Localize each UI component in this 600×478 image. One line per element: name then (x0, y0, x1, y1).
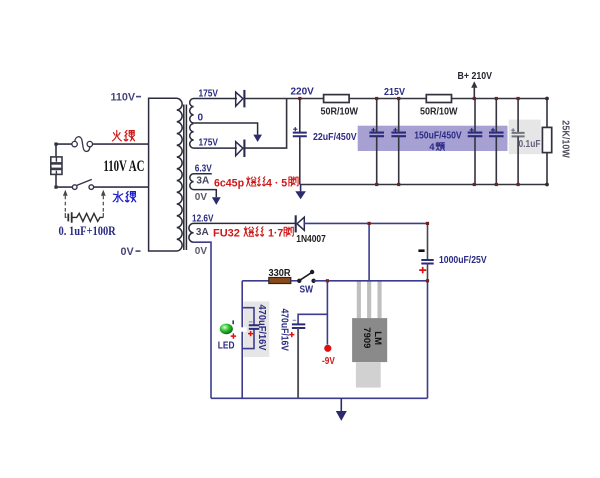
capacitor C7 470uF/16V (292, 320, 305, 328)
svg-text:25K/10W: 25K/10W (560, 120, 571, 158)
svg-text:110V AC: 110V AC (103, 157, 144, 174)
wire HV ground bus (300, 184, 547, 186)
regulator U1 LM7909 leads (357, 281, 382, 318)
capacitor C4 150uF/450V (468, 99, 483, 185)
snubber capacitor 0.1uF plates (68, 212, 71, 222)
wire switch to reservoir cap bottom (314, 280, 428, 282)
arrow 6.3V 0V (212, 197, 221, 205)
svg-text:0: 0 (198, 113, 204, 124)
node dot neutral corner (54, 186, 57, 189)
svg-text:220V: 220V (291, 86, 315, 97)
node dot rail to U1 (368, 222, 371, 225)
svg-text:150uF/450V: 150uF/450V (414, 130, 462, 141)
minus mark 1000uF (418, 249, 424, 252)
highlight gray box 0.1uF (509, 120, 541, 155)
wire hot line (fire) from corner to fuse (56, 143, 72, 145)
transformer core (184, 105, 187, 251)
wire 330R to switch (291, 280, 299, 282)
label water-line (neutral) blue CJK (113, 191, 136, 201)
wire switch to transformer primary 0V (94, 186, 149, 188)
switch S1 on neutral line (72, 179, 93, 189)
capacitor C5 150uF/450V (489, 99, 504, 185)
svg-text:3A: 3A (196, 227, 209, 238)
svg-text:470uF/16V: 470uF/16V (256, 305, 267, 351)
resistor R2 50R/10W (426, 95, 451, 103)
label fire-line (hot) red CJK (112, 130, 134, 141)
highlight gray box LED cap (244, 302, 270, 358)
regulator U1 LM7909 body (352, 318, 387, 362)
capacitor C3 150uF/450V (391, 99, 406, 185)
capacitor 22uF/450V (293, 99, 307, 185)
ground arrow HV bus (300, 185, 302, 192)
capacitor 0.1uF (511, 99, 524, 185)
svg-text:6c45p: 6c45p (214, 177, 245, 189)
label 4 pieces (429, 142, 444, 153)
svg-text:22uF/450V: 22uF/450V (313, 132, 357, 143)
svg-text:7909: 7909 (361, 327, 372, 348)
wire U1 middle pin to negative rail (368, 223, 370, 281)
label 110V- primary tap (111, 92, 142, 104)
diode D3 1N4007 (296, 215, 305, 232)
fuse F1 (72, 137, 93, 152)
wire neutral line to switch (56, 186, 72, 188)
node dot 25K top corner (545, 97, 549, 101)
wire C7 bottom to bus (297, 328, 299, 398)
svg-text:470uF/16V: 470uF/16V (278, 309, 289, 352)
plus mark C7 (289, 332, 294, 337)
transformer HV secondary upper 175V (190, 99, 237, 124)
wire D2 output up to B+ rail (244, 99, 286, 149)
svg-text:330R: 330R (269, 268, 292, 279)
svg-text:110V: 110V (111, 92, 136, 104)
switch SW (297, 270, 316, 283)
node dots HV bus (375, 183, 520, 186)
transformer 12.6V secondary (189, 223, 296, 242)
snubber resistor 100R zigzag (72, 213, 104, 221)
wire -9V stub (326, 281, 328, 345)
wire negative rail from D3 to reservoir cap (304, 222, 428, 224)
arrow center tap ground (253, 135, 262, 142)
svg-text:6.3V: 6.3V (195, 163, 212, 174)
plus mark C6 (248, 331, 253, 336)
wire LED branch vertical (241, 281, 243, 399)
resistor 330R (269, 278, 291, 284)
wire fuse to transformer primary (92, 143, 149, 145)
svg-text:215V: 215V (384, 87, 405, 98)
label 6c45p heater red (214, 177, 298, 190)
wire left vertical between hot and neutral (55, 144, 57, 187)
capacitor C2 150uF/450V (369, 99, 384, 185)
wire bottom bus of negative supply (211, 397, 428, 399)
svg-text:0.1uF: 0.1uF (519, 139, 541, 150)
svg-text:4: 4 (429, 142, 435, 153)
svg-text:SW: SW (300, 285, 314, 296)
wire right drop to 25K (546, 99, 548, 185)
svg-text:3A: 3A (196, 175, 209, 186)
diode D2 lower rectifier (236, 140, 245, 158)
wire 12.6V 0V down to bottom bus (194, 242, 211, 398)
snubber dashed probe arrows (65, 196, 103, 218)
svg-text:50R/10W: 50R/10W (420, 107, 458, 118)
svg-text:FU32: FU32 (213, 228, 240, 240)
surge component (stacked block) on left vertical (51, 157, 62, 175)
node dot wire to cap bottom (426, 279, 429, 282)
plus mark 1000uF (419, 267, 426, 273)
node dot rail to cap (426, 222, 429, 225)
highlight purple box 150uF bank (358, 126, 508, 151)
wire branch to C7 (298, 314, 327, 324)
wire 330R branch (242, 280, 269, 282)
LED leads (white over wire) (233, 327, 247, 331)
svg-text:1000uF/25V: 1000uF/25V (439, 255, 487, 266)
svg-text:-9V: -9V (322, 356, 335, 367)
node dot hot corner (54, 143, 57, 146)
plus mark LED (231, 333, 236, 338)
resistor 25K/10W (542, 127, 551, 152)
transformer 6.3V secondary (190, 174, 216, 198)
regulator U1 tab (356, 362, 381, 388)
wire B+ rail (244, 98, 547, 100)
capacitor C6 470uF/16V bracket (242, 308, 254, 349)
svg-text:LM: LM (372, 331, 383, 345)
svg-text:B+ 210V: B+ 210V (458, 71, 493, 82)
wire B+ output stub (473, 84, 475, 99)
svg-text:50R/10W: 50R/10W (321, 107, 359, 118)
svg-text:1N4007: 1N4007 (296, 234, 326, 245)
capacitor 1000uF/25V (421, 223, 433, 398)
ground arrow main (340, 398, 342, 411)
transformer HV secondary lower 175V (190, 124, 237, 149)
svg-text:0V: 0V (121, 246, 135, 258)
node dots B+ rail (298, 97, 520, 100)
LED cathode tick (232, 320, 234, 324)
wire HV center tap 0 (194, 123, 258, 135)
LED D4 (220, 324, 233, 335)
label 0V- primary tap (121, 246, 141, 258)
svg-text:0. 1uF+100R: 0. 1uF+100R (59, 225, 117, 238)
svg-text:4 · 5: 4 · 5 (266, 177, 287, 189)
label FU32 heater red (213, 227, 293, 240)
resistor R1 50R/10W (324, 95, 350, 103)
svg-text:1·7: 1·7 (268, 228, 283, 240)
node dot 25K bottom corner (545, 183, 549, 187)
svg-text:0V: 0V (195, 192, 208, 203)
transformer T1 primary winding (149, 98, 183, 251)
node dot SW junction (326, 279, 329, 282)
svg-text:0V: 0V (195, 246, 208, 257)
svg-text:175V: 175V (199, 88, 219, 99)
diode D1 upper rectifier (236, 90, 245, 108)
svg-text:LED: LED (218, 340, 235, 351)
svg-text:12.6V: 12.6V (192, 214, 214, 225)
-9V output dot (324, 345, 331, 352)
svg-text:175V: 175V (199, 137, 219, 148)
